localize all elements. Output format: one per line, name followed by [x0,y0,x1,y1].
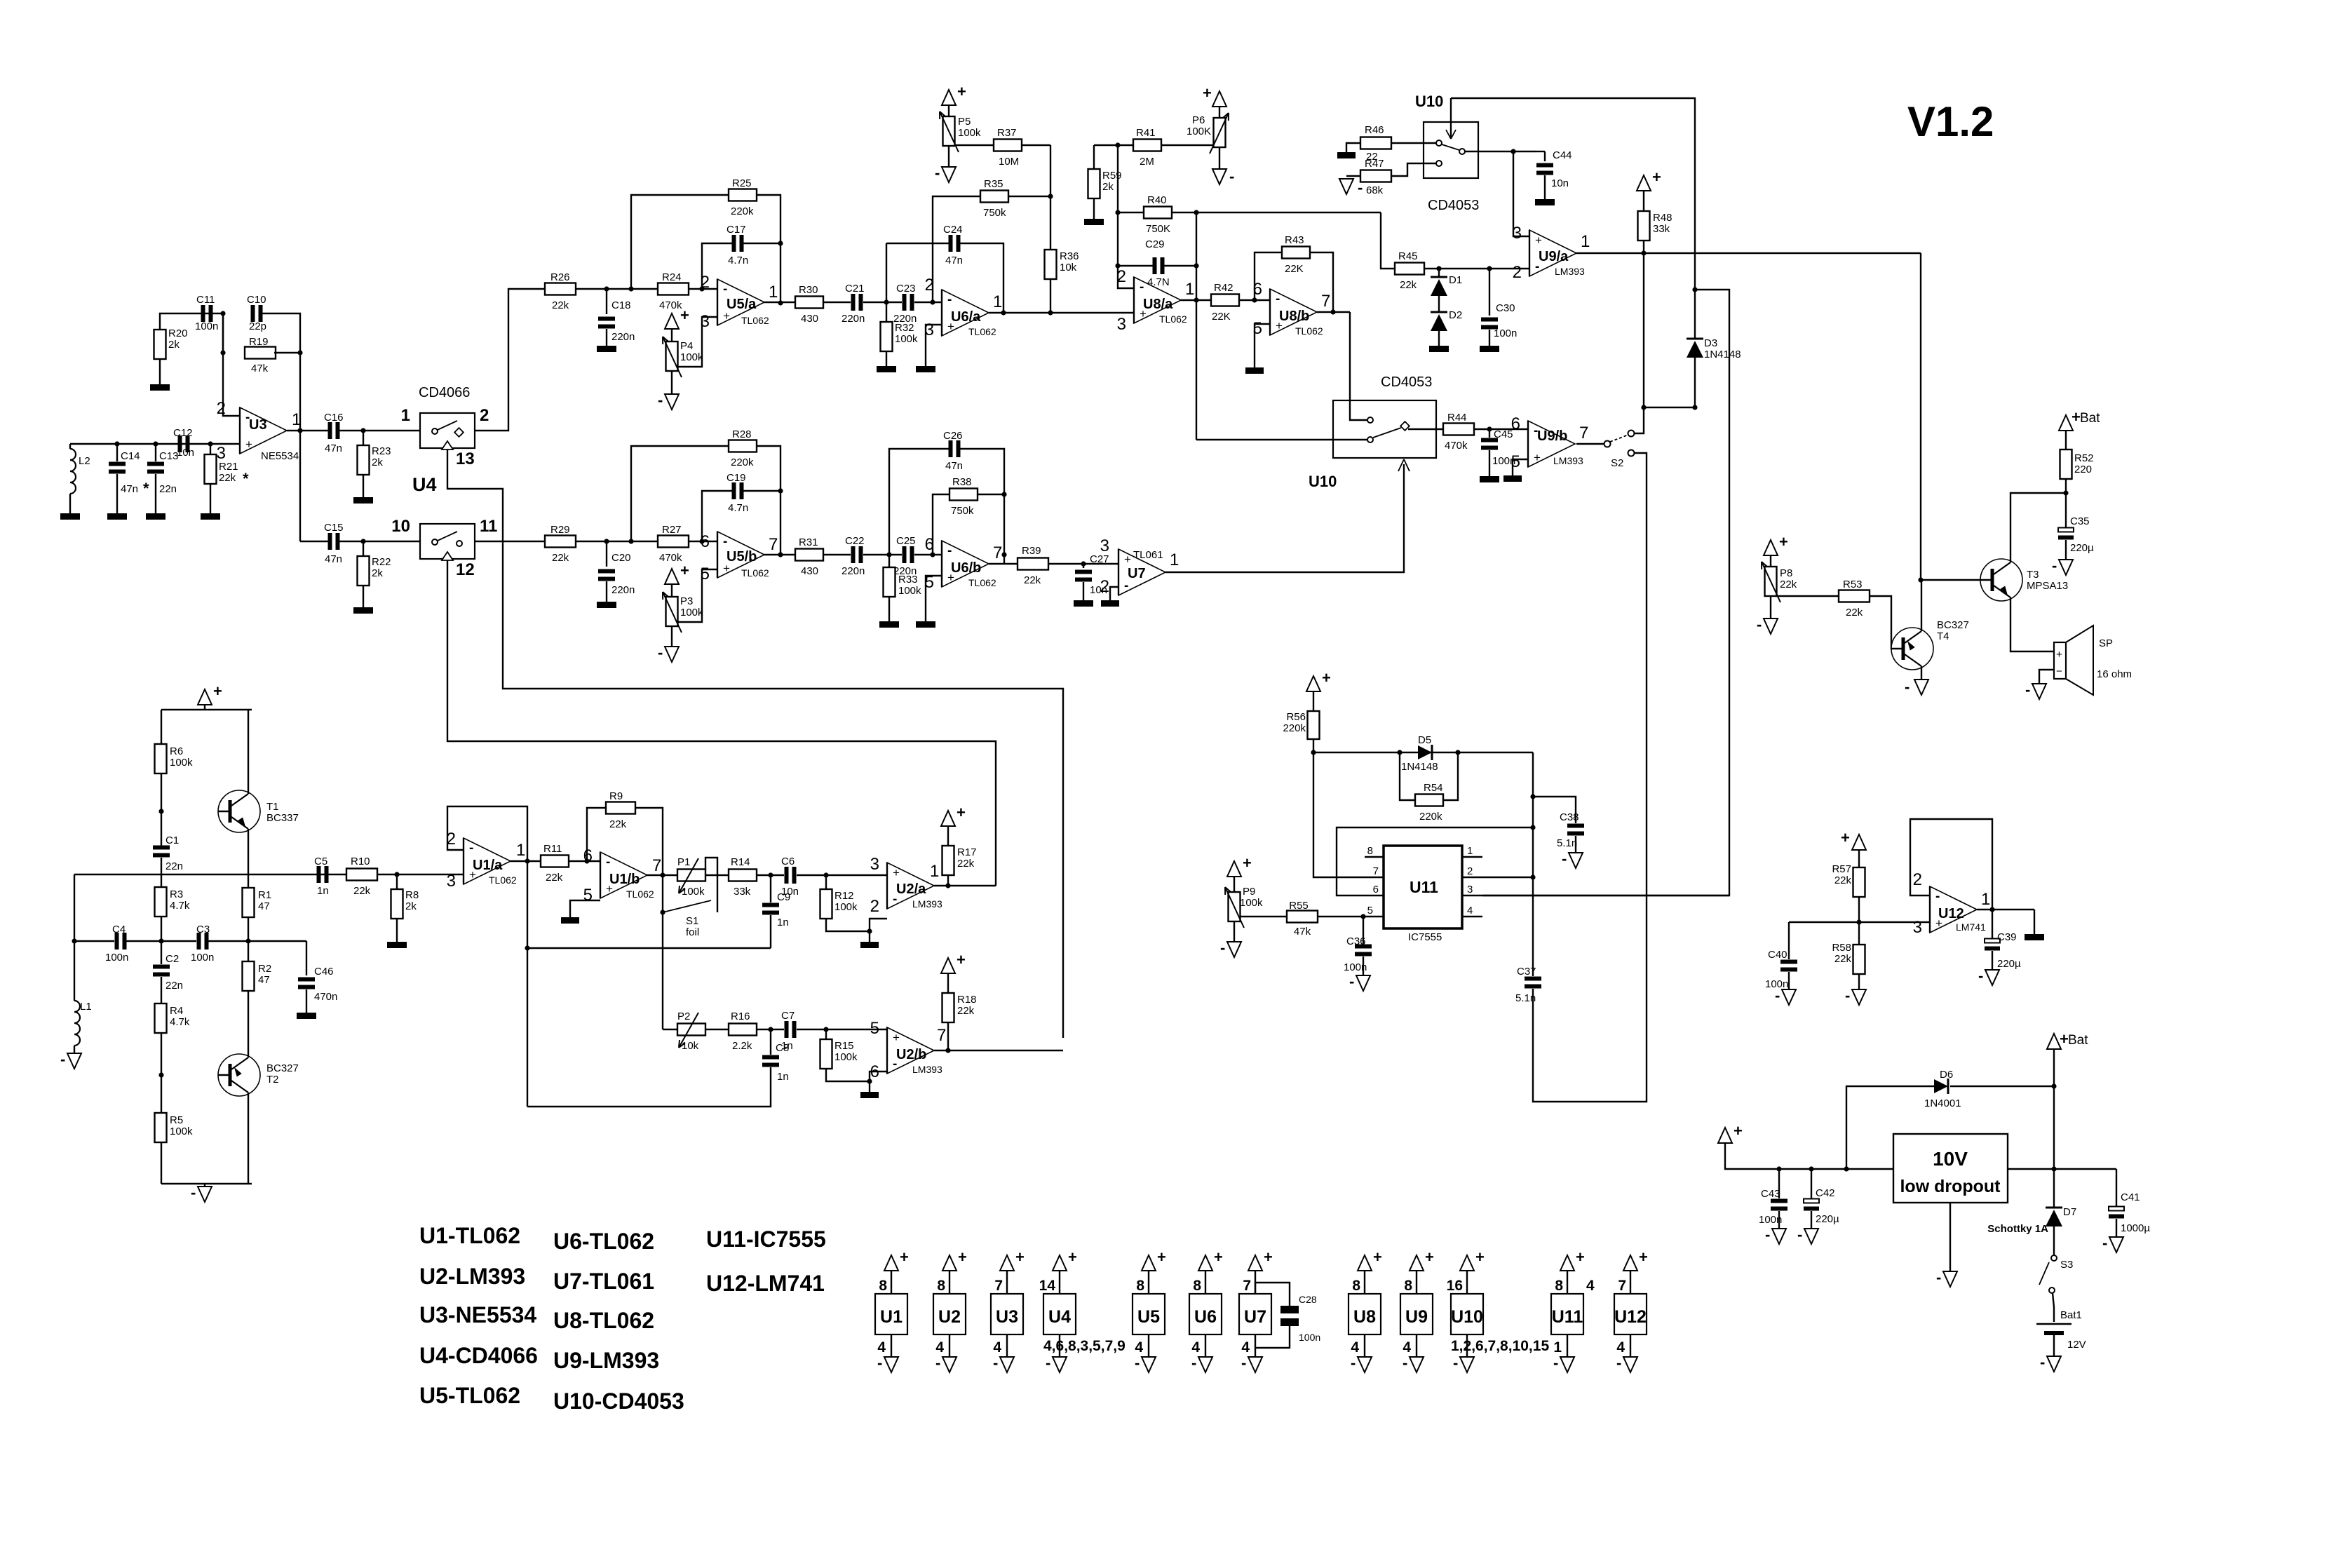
svg-text:+: + [1475,1248,1485,1266]
svg-text:+: + [1425,1248,1434,1266]
svg-text:U5-TL062: U5-TL062 [419,1383,520,1408]
svg-text:100n: 100n [1299,1332,1320,1343]
svg-text:1: 1 [930,862,939,881]
svg-text:4.7k: 4.7k [170,900,190,912]
svg-text:C30: C30 [1496,302,1515,314]
svg-text:C14: C14 [121,450,140,462]
svg-text:22k: 22k [1834,874,1852,886]
svg-text:R11: R11 [543,843,562,855]
svg-text:R55: R55 [1289,900,1309,912]
svg-text:1: 1 [516,841,525,860]
svg-text:-: - [935,164,940,182]
svg-text:+: + [1322,669,1331,687]
svg-text:C37: C37 [1517,966,1536,978]
svg-text:33k: 33k [734,886,751,898]
svg-text:*: * [243,470,249,487]
svg-text:R29: R29 [550,524,570,536]
svg-text:T3: T3 [2027,569,2039,581]
svg-text:C3: C3 [196,924,210,935]
svg-text:22k: 22k [1780,579,1797,590]
svg-text:−: − [2056,665,2062,677]
svg-text:R33: R33 [898,574,918,586]
svg-text:470n: 470n [314,991,337,1003]
svg-text:1: 1 [993,292,1002,311]
svg-text:TL062: TL062 [968,326,996,337]
svg-text:U3: U3 [996,1307,1018,1327]
svg-text:C13: C13 [159,450,179,462]
svg-text:4: 4 [877,1339,886,1356]
svg-text:430: 430 [801,565,818,577]
svg-text:C22: C22 [845,535,865,547]
svg-text:BC327: BC327 [266,1062,299,1074]
svg-text:NE5534: NE5534 [261,450,299,462]
svg-text:+: + [213,682,222,700]
svg-text:7: 7 [1243,1278,1251,1294]
svg-text:R30: R30 [799,284,818,296]
svg-text:P3: P3 [680,595,693,607]
svg-text:R48: R48 [1653,212,1672,224]
svg-text:U10-CD4053: U10-CD4053 [553,1388,684,1414]
svg-text:-: - [1797,1226,1802,1243]
svg-text:-: - [993,1354,998,1372]
svg-text:7: 7 [1579,424,1588,442]
svg-text:5: 5 [870,1019,879,1038]
svg-text:1: 1 [769,283,778,302]
svg-text:SP: SP [2099,637,2113,649]
svg-text:-: - [1775,987,1780,1004]
svg-text:-: - [658,391,663,409]
svg-text:U2-LM393: U2-LM393 [419,1264,525,1289]
svg-text:Bat: Bat [2068,1033,2088,1048]
svg-text:R25: R25 [732,177,752,189]
svg-text:100n: 100n [1494,327,1517,339]
svg-text:U6: U6 [1194,1307,1217,1327]
svg-text:U9/a: U9/a [1539,249,1569,264]
svg-text:5.1n: 5.1n [1557,837,1577,849]
svg-text:U12-LM741: U12-LM741 [706,1271,825,1296]
svg-text:U10: U10 [1415,93,1443,110]
svg-text:R16: R16 [731,1011,750,1022]
svg-text:LM741: LM741 [1956,921,1986,933]
svg-text:U3: U3 [249,417,267,433]
svg-text:-: - [1936,1269,1941,1286]
svg-text:2: 2 [1513,263,1522,282]
svg-text:2: 2 [1117,267,1126,286]
svg-text:TL062: TL062 [1159,313,1187,325]
svg-text:C18: C18 [611,299,631,311]
svg-text:C42: C42 [1816,1187,1835,1199]
svg-text:C35: C35 [2070,515,2090,527]
svg-text:C29: C29 [1145,238,1165,250]
svg-text:C4: C4 [112,924,126,935]
svg-text:1: 1 [1981,890,1990,909]
svg-text:C40: C40 [1768,949,1787,961]
svg-text:CD4053: CD4053 [1428,198,1479,213]
svg-text:47n: 47n [945,255,963,266]
svg-text:U9/b: U9/b [1537,428,1567,444]
svg-text:-: - [1616,1354,1621,1372]
svg-text:-: - [1845,987,1850,1004]
svg-text:12V: 12V [2067,1339,2086,1351]
svg-text:-: - [947,292,952,307]
svg-text:1: 1 [1553,1339,1562,1356]
svg-text:R35: R35 [984,178,1003,190]
svg-text:CD4066: CD4066 [419,385,470,400]
svg-text:C45: C45 [1494,428,1513,440]
svg-text:100n: 100n [195,320,218,332]
svg-text:S1: S1 [686,915,698,927]
svg-text:R31: R31 [799,536,818,548]
svg-text:-: - [1562,850,1567,867]
svg-text:5: 5 [583,886,593,905]
svg-text:4: 4 [1191,1339,1200,1356]
svg-text:11: 11 [480,517,497,536]
svg-text:47n: 47n [945,460,963,472]
svg-text:R24: R24 [662,271,682,283]
svg-text:foil: foil [686,926,699,938]
svg-text:47k: 47k [251,363,269,374]
svg-text:R15: R15 [834,1040,854,1052]
svg-text:T1: T1 [266,801,279,813]
svg-text:L1: L1 [80,1001,92,1013]
svg-text:+: + [1015,1248,1025,1266]
svg-text:8: 8 [1555,1278,1563,1294]
svg-text:*: * [143,480,149,497]
svg-text:22n: 22n [165,980,183,992]
svg-text:U5/a: U5/a [726,297,757,312]
svg-text:2: 2 [701,273,710,292]
svg-text:3: 3 [447,872,456,891]
svg-text:R8: R8 [405,889,419,901]
svg-text:R32: R32 [895,322,914,334]
svg-text:U11: U11 [1552,1307,1583,1327]
svg-text:R28: R28 [732,428,752,440]
svg-text:+: + [1264,1248,1273,1266]
svg-text:LM393: LM393 [1553,455,1583,466]
svg-text:P1: P1 [677,856,690,868]
svg-text:10k: 10k [682,1040,699,1052]
svg-text:22k: 22k [353,885,371,897]
svg-text:10n: 10n [781,886,799,898]
svg-text:R42: R42 [1214,282,1234,294]
svg-text:22n: 22n [165,860,183,872]
svg-text:+: + [1652,168,1661,186]
svg-text:D3: D3 [1704,337,1717,349]
svg-text:750K: 750K [1146,223,1170,235]
svg-text:U7-TL061: U7-TL061 [553,1269,654,1294]
svg-text:R10: R10 [351,856,370,867]
svg-text:+: + [1733,1122,1743,1140]
svg-text:-: - [60,1050,65,1068]
svg-text:100k: 100k [1240,897,1263,909]
svg-text:14: 14 [1039,1278,1056,1294]
svg-text:750k: 750k [983,207,1006,219]
svg-text:1n: 1n [781,1040,793,1052]
svg-text:+: + [1534,451,1541,464]
svg-text:100k: 100k [834,1051,858,1063]
svg-text:100k: 100k [898,585,921,597]
svg-text:+: + [1779,533,1788,550]
svg-text:R56: R56 [1286,711,1306,723]
svg-text:D1: D1 [1449,274,1462,286]
svg-text:+: + [1639,1248,1648,1266]
svg-text:U4-CD4066: U4-CD4066 [419,1343,538,1368]
svg-text:-: - [1229,168,1234,185]
svg-text:low dropout: low dropout [1900,1177,2001,1196]
svg-text:P8: P8 [1780,567,1792,579]
svg-text:TL062: TL062 [741,315,769,326]
svg-text:U1/b: U1/b [609,872,640,887]
svg-text:C19: C19 [726,472,746,484]
svg-text:C43: C43 [1761,1188,1780,1200]
svg-text:1N4001: 1N4001 [1924,1097,1961,1109]
svg-text:8: 8 [1352,1278,1360,1294]
svg-text:TL062: TL062 [489,874,517,886]
svg-text:C7: C7 [781,1010,795,1022]
svg-text:22k: 22k [957,858,975,870]
svg-text:Schottky 1A: Schottky 1A [1987,1223,2048,1235]
svg-text:R2: R2 [258,963,271,975]
svg-text:U12: U12 [1614,1307,1647,1327]
svg-text:22k: 22k [957,1005,975,1017]
svg-text:C36: C36 [1346,935,1366,947]
svg-text:T4: T4 [1937,630,1949,642]
svg-text:220n: 220n [842,313,865,325]
svg-text:+: + [1576,1248,1585,1266]
svg-text:100n: 100n [191,952,214,964]
svg-text:-: - [1453,1354,1458,1372]
svg-text:3: 3 [1117,315,1126,334]
svg-text:U9-LM393: U9-LM393 [553,1348,659,1373]
svg-text:R47: R47 [1365,158,1384,170]
svg-text:+: + [680,562,689,579]
svg-text:+: + [2060,1030,2069,1048]
svg-text:220k: 220k [1419,811,1442,823]
svg-text:220k: 220k [731,205,754,217]
svg-text:U7: U7 [1128,566,1146,581]
svg-text:3: 3 [870,855,879,874]
svg-text:TL062: TL062 [1295,325,1323,337]
svg-text:10n: 10n [1551,177,1569,189]
svg-text:7: 7 [652,856,661,875]
svg-text:R52: R52 [2074,452,2094,464]
svg-text:7: 7 [993,543,1002,562]
svg-text:47: 47 [258,974,270,986]
svg-text:470k: 470k [1445,440,1468,452]
svg-text:100n: 100n [1759,1214,1782,1226]
svg-text:4: 4 [935,1339,944,1356]
svg-text:U10: U10 [1451,1307,1483,1327]
svg-text:R19: R19 [249,336,269,348]
svg-text:1: 1 [1467,845,1473,857]
svg-text:C5: C5 [314,856,327,867]
svg-text:2k: 2k [405,900,417,912]
svg-text:220n: 220n [842,565,865,577]
svg-text:100n: 100n [105,952,128,964]
svg-text:-: - [191,1184,196,1201]
svg-text:4.7n: 4.7n [728,502,748,514]
svg-text:P2: P2 [677,1011,690,1022]
svg-text:R20: R20 [168,327,188,339]
svg-text:2k: 2k [372,457,383,468]
svg-text:D2: D2 [1449,309,1462,321]
svg-text:U12: U12 [1938,906,1964,921]
svg-text:+: + [1373,1248,1382,1266]
svg-text:4: 4 [1403,1339,1411,1356]
svg-text:22n: 22n [159,483,177,495]
svg-text:P5: P5 [958,116,971,128]
svg-text:-: - [947,543,952,558]
svg-text:+: + [1157,1248,1166,1266]
svg-text:1n: 1n [777,917,789,928]
svg-text:R59: R59 [1102,170,1122,182]
svg-text:2k: 2k [1102,181,1114,193]
svg-text:68k: 68k [1366,184,1384,196]
svg-text:4,6,8,3,5,7,9: 4,6,8,3,5,7,9 [1043,1338,1126,1354]
svg-text:Bat: Bat [2080,411,2100,426]
svg-text:P4: P4 [680,340,693,352]
svg-text:8: 8 [1136,1278,1144,1294]
svg-text:-: - [1978,967,1983,985]
svg-text:2k: 2k [372,567,383,579]
svg-text:U1-TL062: U1-TL062 [419,1223,520,1248]
svg-text:C1: C1 [165,834,179,846]
svg-text:CD4053: CD4053 [1381,374,1432,390]
svg-text:-: - [1191,1354,1196,1372]
svg-text:100K: 100K [1187,126,1211,137]
svg-text:S2: S2 [1611,457,1623,469]
svg-text:220k: 220k [1283,722,1306,734]
svg-text:5: 5 [1367,905,1373,917]
svg-text:6: 6 [1373,884,1379,895]
svg-text:3: 3 [217,444,226,463]
svg-text:1n: 1n [317,885,329,897]
svg-text:8: 8 [1367,845,1373,857]
svg-text:C20: C20 [611,552,631,564]
svg-text:R18: R18 [957,994,977,1006]
svg-text:U9: U9 [1405,1307,1428,1327]
svg-text:C17: C17 [726,224,746,236]
svg-text:TL062: TL062 [968,577,996,588]
svg-text:C16: C16 [324,412,344,424]
svg-text:+: + [957,83,966,100]
svg-text:MPSA13: MPSA13 [2027,580,2068,592]
svg-text:5.1n: 5.1n [1515,992,1536,1004]
svg-text:22k: 22k [1024,574,1041,586]
svg-text:750k: 750k [951,505,974,517]
svg-text:U6/b: U6/b [951,560,981,576]
svg-text:4: 4 [1467,905,1473,917]
svg-text:+: + [957,804,966,821]
svg-text:+: + [900,1248,909,1266]
svg-text:470k: 470k [659,552,682,564]
svg-text:R41: R41 [1136,127,1156,139]
svg-text:1000µ: 1000µ [2121,1222,2150,1234]
svg-text:4: 4 [1135,1339,1143,1356]
svg-text:+: + [680,306,689,324]
svg-text:R22: R22 [372,556,391,568]
svg-text:7: 7 [1373,865,1379,877]
svg-text:100k: 100k [682,886,705,898]
svg-text:U8: U8 [1353,1307,1376,1327]
svg-text:C12: C12 [173,427,193,439]
svg-text:R3: R3 [170,888,183,900]
svg-text:C25: C25 [896,535,916,547]
svg-text:-: - [1135,1354,1140,1372]
svg-text:R58: R58 [1832,942,1851,954]
svg-text:-: - [1553,1354,1558,1372]
svg-text:-: - [1403,1354,1407,1372]
svg-text:D5: D5 [1418,734,1431,746]
svg-text:-: - [1241,1354,1246,1372]
svg-text:-: - [2025,681,2030,698]
svg-text:4: 4 [1241,1339,1250,1356]
svg-text:+: + [1214,1248,1223,1266]
svg-text:13: 13 [456,450,475,468]
svg-text:1: 1 [1170,550,1179,569]
svg-text:R26: R26 [550,271,570,283]
svg-text:U11-IC7555: U11-IC7555 [706,1226,826,1252]
svg-text:47: 47 [258,900,270,912]
svg-text:12: 12 [456,560,475,579]
svg-text:4: 4 [1351,1339,1359,1356]
svg-text:-: - [2102,1234,2107,1252]
svg-text:U5: U5 [1137,1307,1160,1327]
svg-text:220µ: 220µ [2070,542,2094,554]
svg-text:100k: 100k [170,757,193,769]
svg-text:R6: R6 [170,745,183,757]
svg-text:220: 220 [2074,464,2092,475]
svg-text:22K: 22K [1285,263,1304,275]
svg-text:L2: L2 [79,455,90,467]
svg-text:1n: 1n [777,1071,789,1083]
svg-text:U6-TL062: U6-TL062 [553,1229,654,1254]
svg-text:U4: U4 [412,474,437,495]
svg-text:P6: P6 [1192,114,1205,126]
svg-text:-: - [2040,1353,2045,1371]
svg-text:R23: R23 [372,445,391,457]
svg-text:U8/b: U8/b [1279,309,1309,324]
svg-text:+: + [1124,553,1131,566]
svg-text:22p: 22p [249,320,266,332]
svg-text:-: - [658,644,663,661]
svg-text:+: + [1068,1248,1077,1266]
svg-text:6: 6 [701,532,710,551]
svg-text:10V: 10V [1933,1148,1968,1170]
svg-text:2: 2 [1100,577,1109,596]
svg-text:6: 6 [1253,280,1262,299]
svg-text:4: 4 [1586,1278,1595,1294]
svg-text:3: 3 [1513,224,1522,243]
svg-text:U8-TL062: U8-TL062 [553,1308,654,1333]
svg-text:-: - [1351,1354,1356,1372]
svg-text:-: - [606,855,610,870]
svg-text:C6: C6 [781,856,795,867]
svg-text:22k: 22k [1834,953,1852,965]
svg-text:6: 6 [1511,414,1520,433]
svg-text:4.7n: 4.7n [728,255,748,266]
svg-text:220n: 220n [611,584,635,596]
svg-text:2M: 2M [1140,156,1154,168]
svg-text:-: - [877,1354,882,1372]
svg-text:1: 1 [1581,232,1590,251]
svg-text:D7: D7 [2063,1206,2076,1218]
svg-text:R40: R40 [1147,194,1167,206]
svg-text:C24: C24 [943,224,963,236]
svg-text:22k: 22k [609,818,627,830]
svg-text:+: + [1841,829,1850,846]
svg-text:+: + [245,438,252,451]
